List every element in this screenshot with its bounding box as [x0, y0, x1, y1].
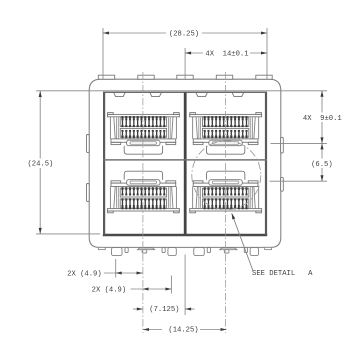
svg-text:2X (4.9): 2X (4.9): [92, 287, 127, 295]
svg-text:4X 14±0.1: 4X 14±0.1: [205, 50, 248, 58]
svg-text:SEE DETAIL A: SEE DETAIL A: [252, 270, 313, 278]
svg-text:(24.5): (24.5): [27, 160, 53, 168]
svg-text:(6.5): (6.5): [311, 161, 333, 169]
svg-text:(28.25): (28.25): [169, 30, 199, 38]
svg-text:4X 9±0.1: 4X 9±0.1: [303, 115, 342, 123]
svg-text:(7.125): (7.125): [149, 306, 179, 314]
svg-text:(14.25): (14.25): [168, 327, 198, 335]
svg-text:2X (4.9): 2X (4.9): [67, 270, 102, 278]
